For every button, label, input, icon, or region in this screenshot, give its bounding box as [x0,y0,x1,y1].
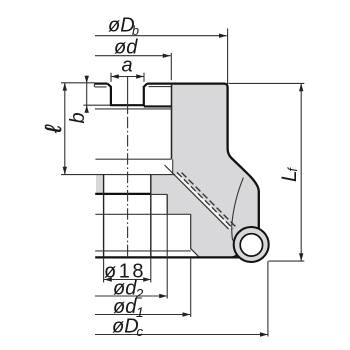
dim ø18 extension lines [104,257,151,282]
lower step line [95,250,191,252]
svg-text:c: c [137,324,144,339]
dim l arrowheads [63,83,67,91]
svg-text:b: b [67,112,89,123]
dim b top extension line (shared with dim l) [61,82,94,84]
dim øDc [95,334,268,336]
cutter body (sectioned, gray fill) [151,84,259,258]
screw axis hidden line 1 (dashed) [177,172,233,228]
recess shoulder right of slot [144,105,172,107]
pocket slit (white corridor) [175,174,231,228]
dim ød arrowhead [163,54,171,58]
dim ød2 extension line [166,194,168,298]
dim øDc extension line [267,261,269,336]
bore wall right (ø18) [150,175,152,258]
dim øDb arrowhead [219,34,227,38]
dim Lf [229,82,305,84]
dim l vertical [64,83,66,175]
screw axis hidden line 2 (dashed) [182,173,237,228]
pocket staircase [167,194,199,257]
dim b vertical [86,76,88,113]
insert screw hole (inner) [240,234,262,256]
dim Lf line [300,83,302,261]
flange rim section (small gray rect) [96,175,104,194]
dim ød1 [95,314,190,316]
dim Lf bottom extension line [269,260,305,262]
dim a extension lines [111,73,144,82]
slot (drive keyway) [107,84,147,106]
top face right of slot + rounded corner + right edge [147,84,259,230]
bore wall left (ø18) [103,175,105,258]
top rim lip right [149,86,171,88]
dim ød line [95,55,171,57]
dim ød2 [95,295,167,297]
dim ød1 extension line [190,258,192,317]
inner step line [95,158,171,160]
dim b arrowheads [85,76,89,84]
flange top face [61,174,175,176]
body top face [94,82,107,84]
dim øDb line [95,35,227,37]
dim øDc arrowhead [260,332,268,336]
counterbore step line [151,193,167,195]
counterbore shoulder (thick) [95,193,151,195]
dim ød1 arrowhead [183,312,191,316]
svg-text:a: a [122,55,133,77]
svg-text:øD: øD [108,15,135,37]
dim øDb extension line [227,28,229,84]
recess floor line [95,108,172,110]
dim a [111,76,144,78]
dim ød2 arrowhead [159,294,167,298]
dim b bottom extension line [83,104,110,106]
dim a arrowheads [111,74,119,78]
dim ø18 [104,279,151,281]
round insert (outer) [234,227,269,262]
mid step line [95,213,190,215]
dim Lf arrowheads [299,83,303,91]
svg-text:øD: øD [112,316,139,338]
fillet into insert [232,253,239,257]
step below recess wall [172,159,174,174]
centerline (bore axis, dash-dot) [127,77,129,113]
body bottom face [95,256,240,258]
top rim lip left [94,84,106,87]
dim ø18 arrowheads [104,277,112,281]
pocket rear wall curve [232,178,244,241]
pocket open edge (solid diagonal) [165,165,229,229]
dim ød extension line [170,53,172,80]
recess wall (ød) [171,84,173,160]
